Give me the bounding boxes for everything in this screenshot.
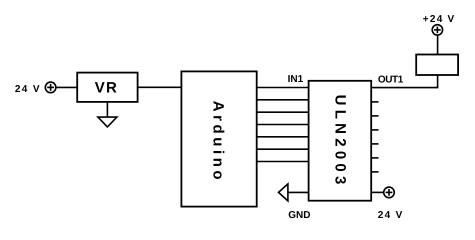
wire: Arduino to ULN2003 pin 7 — [257, 161, 309, 163]
terminal +24V left (circle-plus) — [45, 82, 56, 93]
svg-text:24 V: 24 V — [15, 84, 40, 95]
ULN2003 output stub 3 — [371, 115, 378, 117]
ULN2003 output stub 6 — [371, 157, 378, 159]
terminal +24V top (circle-plus) — [432, 25, 442, 35]
terminal 24V bottom (circle-plus) — [384, 187, 395, 198]
ULN2003 output stub 5 — [371, 143, 378, 145]
svg-text:GND: GND — [288, 210, 310, 221]
svg-text:24 V: 24 V — [378, 210, 403, 221]
ULN2003 output stub 7 — [371, 171, 378, 173]
wire: load to +24V terminal — [437, 35, 439, 54]
wire: ULN2003 to 24V terminal (bottom right) — [371, 191, 384, 193]
wire: Arduino to ULN2003 pin IN1 — [257, 87, 309, 89]
ULN2003 output stub 4 — [371, 129, 378, 131]
driver U1 ULN2003 box — [309, 81, 372, 201]
svg-text:IN1: IN1 — [288, 74, 304, 85]
load box (top right) — [416, 55, 458, 76]
wire: Arduino to ULN2003 pin 4 — [257, 124, 309, 126]
wire: Arduino to ULN2003 pin 2 — [257, 99, 309, 101]
ULN2003 output stub 2 — [371, 101, 378, 103]
svg-text:OUT1: OUT1 — [378, 74, 404, 85]
wire: Arduino to ULN2003 pin 5 — [257, 136, 309, 138]
GND arrow — [279, 184, 288, 201]
ground — [98, 117, 117, 127]
svg-text:VR: VR — [95, 79, 117, 96]
wire: OUT1 to load — [371, 75, 437, 88]
wire: VR to Arduino — [138, 86, 182, 88]
wire: Arduino to ULN2003 pin 3 — [257, 111, 309, 113]
Arduino box — [181, 71, 256, 206]
wire: Arduino to ULN2003 pin 6 — [257, 148, 309, 150]
wire: left terminal to VR — [56, 86, 77, 88]
wire: GND arrow to ULN2003 — [288, 191, 309, 193]
svg-text:+24 V: +24 V — [423, 14, 455, 25]
wire: VR to ground symbol — [106, 102, 108, 117]
voltage regulator VR box — [77, 73, 137, 102]
